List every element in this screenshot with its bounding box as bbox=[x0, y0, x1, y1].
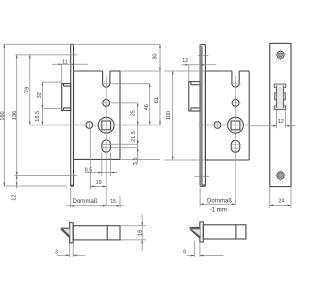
left lock: upper hole circle bbox=[103, 100, 110, 107]
svg-text:16.5: 16.5 bbox=[35, 111, 41, 122]
dim 8.5: oblong hole width bbox=[85, 153, 117, 177]
left latch detail: faceplate bar cross-section bbox=[70, 223, 74, 243]
dim 3: faceplate thickness bbox=[55, 244, 86, 257]
right lock: bottom screw hole tick bbox=[194, 175, 209, 177]
svg-text:-1 mm: -1 mm bbox=[210, 208, 227, 214]
right lock: horizontal center line through follower bbox=[198, 124, 250, 126]
dim 25: upper hole to follower axis bbox=[111, 103, 138, 125]
dim 11: screw hole to latch reference bbox=[52, 59, 88, 83]
dim 19: fixing hole to follower axis bbox=[90, 129, 106, 190]
left lock: small fixing hole center mark bbox=[88, 121, 90, 130]
dim 12: latch protrusion of right lock bbox=[181, 58, 216, 81]
right lock: top notch slot with rounded bottom bbox=[232, 71, 239, 87]
svg-text:11: 11 bbox=[62, 59, 68, 65]
dim 21.5: follower axis to oblong hole bbox=[131, 125, 139, 144]
left lock: small fixing hole circle bbox=[86, 122, 93, 129]
svg-text:12: 12 bbox=[278, 119, 284, 125]
dim 32: latch top to latch bottom bbox=[37, 82, 62, 125]
dim ext: left faceplate top line bbox=[3, 43, 160, 45]
right lock: upper hole circle bbox=[232, 100, 239, 107]
left lock: latch bolt tab protruding through faceplate bbox=[62, 84, 71, 111]
dim 61: case top to follower axis bbox=[120, 71, 161, 125]
dim ext: left top screw hole line bbox=[15, 54, 77, 56]
svg-text:24: 24 bbox=[278, 199, 284, 205]
svg-text:Dornmaß: Dornmaß bbox=[72, 199, 97, 205]
left lock: upper hole center marks bbox=[101, 98, 111, 108]
right lock: notch center marks bbox=[230, 76, 241, 92]
dim 12: latch width on faceplate bbox=[251, 110, 296, 129]
dim 24: faceplate width bbox=[270, 187, 291, 208]
left lock: notch center marks bbox=[101, 76, 112, 93]
right latch detail: bevelled latch head bbox=[190, 227, 201, 238]
right lock: latch bolt tab protruding through faceplate bbox=[189, 82, 200, 111]
faceplate front view: bottom screw hole bbox=[275, 170, 286, 181]
dim 16: latch height bbox=[121, 215, 147, 251]
svg-text:79: 79 bbox=[24, 87, 30, 93]
svg-text:21.5: 21.5 bbox=[131, 131, 137, 142]
svg-text:3: 3 bbox=[55, 249, 58, 255]
right lock: small fixing hole circle bbox=[214, 122, 221, 129]
svg-text:160: 160 bbox=[0, 111, 6, 120]
right lock: follower square spindle hole bbox=[231, 121, 240, 130]
svg-text:136: 136 bbox=[12, 111, 18, 120]
left lock: top notch slot with rounded bottom bbox=[103, 71, 110, 87]
right lock: oblong cylinder hole (stadium) bbox=[231, 140, 239, 152]
svg-text:3.5: 3.5 bbox=[133, 157, 139, 165]
dim ext: case bottom line to right bbox=[120, 158, 160, 160]
svg-text:16: 16 bbox=[137, 230, 143, 236]
dim 136: screw hole to screw hole bbox=[12, 55, 18, 175]
right lock: case outline bbox=[205, 71, 249, 160]
svg-text:Dornmaß: Dornmaß bbox=[207, 198, 232, 204]
svg-text:8.5: 8.5 bbox=[85, 167, 93, 173]
svg-text:46: 46 bbox=[144, 104, 150, 110]
svg-text:19: 19 bbox=[96, 180, 102, 186]
right lock: vertical center line through holes bbox=[235, 92, 237, 203]
right lock: faceplate strip (U profile) bbox=[200, 45, 205, 187]
svg-text:15: 15 bbox=[110, 199, 116, 205]
dim 160: overall faceplate length bbox=[0, 44, 6, 186]
left latch detail: bevelled latch head bbox=[61, 228, 70, 238]
left lock: case outline bbox=[74, 71, 121, 159]
right latch detail: latch body bbox=[203, 225, 246, 239]
right lock: follower circle bbox=[228, 117, 244, 133]
right lock: small fixing hole center mark bbox=[217, 121, 219, 130]
svg-text:32: 32 bbox=[37, 92, 43, 98]
right lock: upper hole center marks bbox=[231, 98, 241, 108]
dim 79: screw hole to follower axis bbox=[24, 55, 30, 125]
right lock: top screw hole tick bbox=[198, 55, 209, 57]
svg-text:12: 12 bbox=[182, 58, 188, 64]
left lock: oblong cylinder hole (stadium) bbox=[102, 140, 111, 152]
left lock: follower circle bbox=[98, 117, 114, 133]
dim 12: bottom screw to faceplate end bbox=[11, 174, 17, 201]
dim 3.5: oblong hole arc centers bbox=[101, 141, 139, 165]
svg-text:25: 25 bbox=[131, 110, 137, 116]
dim 16.5: latch bottom to follower axis bbox=[35, 111, 43, 125]
right latch detail: faceplate bar cross-section bbox=[200, 222, 203, 242]
svg-text:100: 100 bbox=[166, 111, 172, 120]
svg-text:6: 6 bbox=[183, 249, 186, 255]
faceplate front view: latch opening with latch face bbox=[274, 84, 285, 109]
left lock: vertical center line through holes bbox=[105, 92, 107, 205]
dim ext: bottom screw hole line bbox=[15, 174, 78, 176]
dim 6: latch head bevel offset bbox=[183, 241, 223, 257]
dim Dornmass -1 mm: right lock backset bbox=[200, 188, 236, 214]
left latch detail: latch body bbox=[73, 226, 120, 240]
left lock: faceplate strip (side view) bbox=[71, 44, 74, 186]
svg-text:61: 61 bbox=[154, 97, 160, 103]
dim ext: faceplate bottom line bbox=[3, 185, 67, 187]
dim 30: faceplate top to case top bbox=[153, 44, 161, 71]
right lock: oblong hole center mark bbox=[230, 144, 241, 146]
dim 46: notch pin to follower axis bbox=[112, 84, 151, 125]
dim 100: case height of right lock bbox=[165, 71, 206, 160]
svg-text:30: 30 bbox=[153, 53, 159, 59]
dim Dornmass + 15: backset and follower to case back bbox=[67, 188, 124, 208]
left lock: horizontal center line through follower bbox=[30, 124, 160, 126]
faceplate front view: top screw hole bbox=[275, 49, 286, 60]
left lock: follower square spindle hole bbox=[102, 121, 111, 130]
faceplate front view: plate outline bbox=[270, 43, 291, 186]
svg-text:12: 12 bbox=[11, 194, 17, 200]
